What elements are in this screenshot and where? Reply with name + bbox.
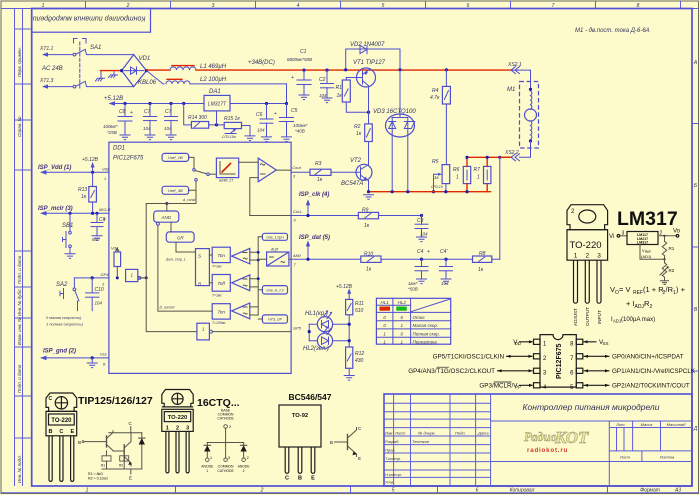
motor M1	[507, 82, 539, 158]
stamp title cell line	[491, 420, 692, 422]
svg-text:GP1/AN1/CIN-/Vref/ICSPCLK: GP1/AN1/CIN-/Vref/ICSPCLK	[612, 368, 696, 375]
svg-text:6: 6	[476, 488, 479, 494]
top ruler ticks	[86, 1, 681, 9]
switch SA2	[56, 278, 79, 311]
svg-text:Перв. примен.: Перв. примен.	[17, 47, 22, 77]
svg-text:1к: 1к	[337, 93, 343, 99]
svg-text:Лист: Лист	[619, 455, 631, 460]
inverter gate GP4	[126, 269, 147, 281]
wire pin6 feedback inside DD1	[250, 215, 291, 217]
reference box One_1.0	[258, 233, 287, 240]
ground ISP	[87, 356, 97, 367]
svg-text:B: B	[49, 429, 53, 435]
left margin cell separators	[15, 29, 32, 438]
svg-text:Перегрузка: Перегрузка	[413, 339, 438, 344]
resistor R11	[346, 299, 364, 347]
svg-text:SB1: SB1	[62, 223, 73, 229]
capacitor C3	[415, 214, 428, 242]
svg-text:C3: C3	[417, 218, 424, 224]
IC block DD1 PIC12F675	[109, 142, 291, 373]
wire GP to LEDs	[308, 323, 351, 343]
svg-text:ISP_clk (4): ISP_clk (4)	[299, 192, 329, 198]
svg-text:Копировал: Копировал	[510, 488, 535, 494]
svg-text:Toff: Toff	[218, 281, 226, 286]
svg-text:C4: C4	[417, 249, 424, 255]
svg-text:104: 104	[95, 301, 103, 306]
pin 3	[534, 368, 541, 373]
stamp right cell labels	[615, 422, 686, 460]
svg-text:Контроллер питания микродрели: Контроллер питания микродрели	[523, 402, 660, 412]
adj pin wire	[640, 245, 665, 260]
svg-text:AN0: AN0	[292, 253, 302, 258]
left margin vertical labels	[17, 47, 22, 483]
svg-text:GP4/AN3/T1G/OSC2/CLKOUT: GP4/AN3/T1G/OSC2/CLKOUT	[408, 368, 495, 375]
svg-text:LM317: LM317	[637, 241, 648, 245]
left margin column lines	[15, 9, 23, 487]
svg-text:B: B	[330, 440, 333, 445]
svg-text:B: B	[78, 440, 81, 445]
svg-text:2: 2	[650, 304, 653, 310]
svg-text:1к: 1к	[81, 194, 87, 200]
svg-text:HL2(зел.): HL2(зел.)	[303, 346, 329, 352]
svg-text:2: 2	[229, 425, 231, 429]
resistor R4	[430, 68, 450, 164]
LED HL1	[305, 310, 349, 332]
inductor L1	[170, 64, 227, 70]
svg-text:Лит.: Лит.	[615, 422, 625, 427]
pin Cout	[292, 165, 301, 179]
svg-text:C5: C5	[291, 108, 298, 114]
pin arrows right	[584, 342, 610, 386]
svg-text:R5: R5	[432, 159, 439, 165]
svg-text:COMMON: COMMON	[218, 465, 234, 469]
svg-text:Подп.: Подп.	[455, 431, 466, 436]
node adj	[215, 123, 218, 126]
node inverter branch	[145, 276, 148, 279]
svg-text:GP5: GP5	[293, 326, 302, 331]
svg-text:Т=100мс: Т=100мс	[212, 321, 226, 325]
svg-text:Полная скор.: Полная скор.	[413, 331, 440, 336]
logic gate AND	[154, 211, 179, 225]
svg-text:C: C	[59, 429, 63, 435]
svg-text:Листов: Листов	[659, 455, 675, 460]
svg-text:CATHODE: CATHODE	[217, 469, 234, 473]
capacitor C6	[256, 102, 273, 142]
svg-text:1 полная скорость): 1 полная скорость)	[46, 322, 84, 327]
svg-text:GP4: GP4	[101, 272, 110, 277]
svg-text:GP0/AN0/CIN+/ICSPDAT: GP0/AN0/CIN+/ICSPDAT	[612, 354, 684, 361]
resistor R5 rheostat	[431, 159, 450, 193]
label ISP_dat	[299, 235, 330, 261]
svg-text:Cout: Cout	[292, 165, 301, 170]
svg-text:R2: R2	[354, 124, 361, 130]
svg-text:104: 104	[143, 126, 151, 131]
transistor VT1 TIP127	[346, 60, 385, 87]
resistor R7	[474, 157, 491, 191]
svg-text:Vdd: Vdd	[102, 167, 110, 172]
inductor L2	[166, 77, 227, 84]
svg-text:TO-220: TO-220	[51, 418, 72, 424]
resistor R1 (tip)	[102, 456, 111, 461]
svg-text:16CTQ...: 16CTQ...	[197, 397, 240, 409]
switch SB1	[62, 212, 75, 259]
svg-text:DD: DD	[515, 341, 522, 346]
svg-text:ISP_dat (5): ISP_dat (5)	[299, 235, 330, 241]
svg-text:PIC12F675: PIC12F675	[556, 343, 563, 379]
internal pullup Vdd resistor	[111, 246, 121, 280]
connector XT1.1	[39, 46, 73, 57]
svg-text:104: 104	[164, 126, 172, 131]
leg labels	[573, 307, 602, 326]
svg-text:104: 104	[420, 232, 428, 237]
capacitor C10	[86, 276, 104, 310]
TO-92 legs	[285, 447, 315, 473]
wire red bridge to L1	[147, 69, 171, 71]
svg-text:Подп. и дата: Подп. и дата	[17, 255, 22, 284]
stamp right cells	[491, 421, 692, 486]
node R6 top	[465, 156, 468, 159]
svg-text:ISP_Vdd (1): ISP_Vdd (1)	[38, 165, 71, 171]
svg-text:R11: R11	[355, 301, 364, 307]
svg-text:Cin1-: Cin1-	[293, 209, 303, 214]
svg-text:ADJ: ADJ	[613, 319, 621, 324]
svg-text:LM317: LM317	[617, 208, 678, 230]
svg-text:1: 1	[574, 253, 578, 260]
svg-text:C7: C7	[165, 109, 172, 115]
svg-text:BC546/547: BC546/547	[288, 392, 331, 402]
svg-text:S: S	[198, 254, 201, 259]
svg-text:R13: R13	[78, 187, 87, 193]
svg-text:C1: C1	[300, 49, 307, 55]
power +5.12V arrow (led)	[336, 284, 353, 299]
resistor R12	[344, 347, 364, 380]
indicator truth table	[376, 298, 450, 344]
svg-text:СП3-19а: СП3-19а	[222, 135, 236, 139]
comparator cmp2	[232, 275, 259, 291]
TO-220 tab 16CTQ	[162, 390, 193, 407]
bottom ruler line	[1, 492, 699, 494]
diode VD3 16CTQ100	[373, 70, 416, 192]
svg-text:Радио: Радио	[524, 430, 557, 444]
svg-text:0 малая скорость): 0 малая скорость)	[46, 315, 82, 320]
svg-text:+5.12В: +5.12В	[336, 284, 353, 290]
svg-text:XT1.3: XT1.3	[39, 78, 54, 84]
svg-text:Д: Д	[693, 426, 698, 432]
svg-text:Инв. № дубл.: Инв. № дубл.	[17, 288, 22, 316]
svg-text:Т.контр.: Т.контр.	[385, 456, 401, 461]
ground VT2 emitter	[364, 195, 374, 200]
svg-text:HL1: HL1	[380, 300, 389, 305]
power +5.12V arrow	[104, 96, 123, 106]
svg-text:СП3-19: СП3-19	[431, 185, 443, 189]
comparator cmp3	[232, 303, 259, 319]
svg-text:*40В: *40В	[295, 129, 305, 134]
stamp left grid verticals	[394, 394, 491, 486]
pin Cin1-	[293, 209, 303, 223]
resistor R2 (lm317 app, variable)	[664, 259, 666, 281]
resistor R2 (tip)	[120, 456, 129, 461]
svg-text:1: 1	[206, 469, 208, 473]
label ISP_Vdd	[38, 165, 110, 181]
TO-220 body LM317	[567, 230, 608, 261]
svg-text:АЦП: АЦП	[270, 248, 279, 252]
svg-text:C8: C8	[119, 109, 126, 115]
svg-text:BC547A: BC547A	[341, 181, 363, 187]
svg-text:C: C	[49, 396, 53, 402]
inverter gate GP5 out	[146, 278, 291, 340]
svg-text:HL2: HL2	[398, 300, 407, 305]
capacitor C7a	[143, 102, 157, 140]
svg-text:C7: C7	[144, 109, 151, 115]
svg-text:DA1: DA1	[209, 89, 221, 95]
svg-text:М1: М1	[507, 87, 515, 93]
svg-text:А: А	[693, 60, 698, 66]
svg-text:Vss: Vss	[100, 352, 107, 357]
ref selector switch	[182, 157, 216, 202]
svg-text:ADJ: ADJ	[635, 304, 645, 310]
ground R15	[245, 136, 255, 141]
svg-text:E: E	[311, 476, 315, 482]
svg-text:Пров.: Пров.	[385, 448, 396, 453]
TO-220 tab TIP	[46, 393, 77, 411]
op-amp/IC pinout DD1 PIC12F675	[408, 335, 696, 391]
label ISP_gnd	[40, 349, 109, 367]
comparator cmp1	[232, 248, 259, 264]
LM317 app circuit	[609, 229, 681, 285]
svg-text:Справ. №: Справ. №	[17, 116, 22, 137]
wire red ground rail	[369, 191, 491, 193]
svg-text:PIC12F675: PIC12F675	[113, 156, 144, 162]
svg-text:DD1: DD1	[113, 146, 125, 152]
capacitor C2	[319, 69, 334, 103]
right margin zone ticks	[692, 124, 699, 372]
svg-text:OR: OR	[177, 236, 185, 241]
svg-text:А3: А3	[674, 488, 681, 494]
wire bridge to L2	[147, 71, 165, 84]
svg-text:Vo: Vo	[673, 229, 681, 235]
svg-text:KBL06: KBL06	[138, 80, 157, 86]
svg-text:ISP_gnd (2): ISP_gnd (2)	[43, 349, 76, 355]
svg-text:R1: R1	[101, 464, 105, 468]
svg-text:1к: 1к	[356, 131, 362, 137]
resistor R13	[78, 171, 96, 214]
svg-text:3: 3	[597, 253, 601, 260]
svg-text:C10: C10	[95, 287, 104, 293]
wire SA1 to bridge bottom	[85, 82, 133, 87]
svg-text:Изм: Изм	[385, 431, 393, 436]
stamp left grid horizontals	[384, 403, 491, 477]
capacitor C4a	[440, 249, 453, 286]
svg-text:Н.контр.: Н.контр.	[385, 472, 402, 477]
svg-text:2: 2	[585, 253, 589, 260]
svg-text:VT2: VT2	[350, 158, 362, 164]
label ISP_mclr	[38, 206, 110, 222]
svg-text:М1 - дв.пост. тока Д-6-6А: М1 - дв.пост. тока Д-6-6А	[575, 28, 650, 34]
pin labels right	[599, 339, 696, 390]
capacitor C4	[408, 249, 430, 292]
svg-text:1: 1	[210, 456, 212, 460]
label ISP_clk	[299, 192, 329, 217]
svg-text:+: +	[274, 111, 277, 117]
wire XS2.2 sense to R8	[499, 157, 501, 259]
power +5.12V arrow (isp)	[82, 157, 99, 172]
svg-text:E: E	[358, 456, 361, 461]
svg-text:TO-92: TO-92	[292, 413, 308, 419]
svg-text:430: 430	[355, 358, 364, 364]
svg-text:Малая скор.: Малая скор.	[413, 323, 439, 328]
wire SA1 to bridge top	[85, 50, 133, 55]
svg-text:1к: 1к	[364, 223, 370, 229]
connector XS2.1	[507, 62, 531, 82]
wire GP4 net	[74, 277, 109, 279]
wire L2 to DA1 input	[190, 84, 287, 104]
svg-text:OUTPUT: OUTPUT	[585, 307, 590, 326]
pin 7	[576, 354, 583, 359]
resistor R15 trimmer	[222, 116, 242, 139]
svg-text:Теченков: Теченков	[412, 439, 429, 444]
svg-text:*50В: *50В	[408, 287, 418, 292]
capacitor C8	[103, 102, 133, 140]
wire red main rail	[196, 69, 512, 71]
svg-text:+ I: + I	[626, 299, 635, 308]
node ref to AND	[165, 202, 168, 205]
svg-text:VD2 1N4007: VD2 1N4007	[350, 42, 385, 48]
svg-text:1к: 1к	[317, 177, 323, 183]
right margin zone letters	[693, 60, 698, 432]
capacitor C5	[274, 102, 308, 142]
svg-text:2: 2	[247, 456, 249, 460]
resistor R6	[453, 157, 471, 191]
svg-text:INPUT: INPUT	[597, 310, 602, 324]
pin arrows left	[497, 342, 533, 386]
svg-text:CATHODE: CATHODE	[217, 417, 234, 421]
svg-text:XT1.1: XT1.1	[39, 46, 54, 52]
top zone numbers	[42, 3, 640, 9]
svg-text:100мк*: 100мк*	[293, 123, 308, 128]
svg-text:R1: R1	[336, 85, 343, 91]
svg-text:1: 1	[456, 175, 459, 181]
svg-text:Оnе_Н_1.0: Оnе_Н_1.0	[266, 289, 283, 293]
resistor R14	[182, 102, 209, 128]
capacitor C9	[91, 212, 106, 242]
svg-text:C6: C6	[256, 112, 263, 118]
svg-text:R1: R1	[669, 246, 675, 251]
svg-text:TO-220: TO-220	[570, 240, 602, 251]
svg-text:2: 2	[660, 231, 663, 237]
node XS2.2 branch	[498, 156, 501, 159]
svg-text:LM317T: LM317T	[208, 102, 227, 108]
resistor R1 (lm317 app)	[663, 235, 665, 237]
svg-text:GP3/MCLR/V: GP3/MCLR/V	[479, 383, 518, 390]
connector XT1.3	[39, 78, 73, 89]
LM317 legs	[574, 260, 602, 303]
svg-text:Ton: Ton	[218, 310, 226, 315]
svg-text:E: E	[129, 476, 132, 481]
svg-text:1: 1	[477, 175, 480, 181]
svg-text:*25В: *25В	[107, 130, 117, 135]
svg-text:E: E	[70, 429, 74, 435]
svg-text:1: 1	[86, 488, 89, 494]
comparator (pwm)	[239, 158, 291, 215]
TO-92 body	[279, 405, 321, 447]
16CTQ legs	[166, 431, 189, 473]
diode bridge VD1 KBL06	[122, 55, 157, 87]
svg-text:R12: R12	[355, 351, 364, 357]
stamp header row texts	[385, 431, 489, 485]
svg-text:6800мк*50В: 6800мк*50В	[287, 57, 312, 62]
reference box Uref_4V	[162, 186, 189, 194]
pin 8	[576, 339, 583, 344]
bottom ruler ticks	[176, 486, 608, 493]
pin 6	[576, 368, 583, 373]
svg-text:R14 300: R14 300	[188, 115, 207, 121]
svg-text:C2: C2	[319, 77, 326, 83]
logic gate OR	[165, 222, 196, 261]
timer block Ton2	[212, 304, 230, 325]
svg-text:2: 2	[243, 469, 245, 473]
resistor R2	[354, 124, 372, 142]
svg-text:B: B	[298, 476, 302, 482]
svg-text:+: +	[130, 110, 133, 116]
svg-text:Инв. № подл.: Инв. № подл.	[17, 455, 22, 483]
svg-text:SA2: SA2	[56, 282, 68, 288]
svg-text:Uref_4В: Uref_4В	[168, 188, 183, 193]
pin 5	[576, 383, 583, 388]
svg-text:1к: 1к	[478, 267, 484, 273]
svg-text:D_current: D_current	[160, 306, 176, 310]
resistor R9	[291, 208, 421, 230]
connector XS2.2	[500, 150, 520, 161]
svg-text:AND: AND	[161, 215, 172, 220]
svg-text:REF: REF	[633, 290, 643, 296]
svg-text:Контроллер питания микродрели: Контроллер питания микродрели	[33, 15, 146, 23]
regulator DA1 LM317T	[204, 89, 230, 111]
svg-text:ШИМ_2Т: ШИМ_2Т	[219, 179, 234, 183]
formula	[610, 285, 686, 324]
svg-text:2: 2	[260, 488, 264, 494]
svg-text:+5.12В: +5.12В	[104, 96, 123, 102]
svg-text:Дата: Дата	[477, 431, 489, 436]
svg-text:5: 5	[392, 488, 395, 494]
svg-text:104: 104	[319, 93, 327, 98]
svg-text:Масштаб: Масштаб	[667, 422, 686, 427]
svg-text:104: 104	[257, 128, 265, 133]
transistor VT2 BC547A	[331, 158, 372, 192]
svg-text:4.7к: 4.7к	[430, 95, 440, 101]
svg-text:= V: = V	[619, 285, 630, 294]
capacitor C1	[287, 49, 312, 100]
svg-text:(1 + R: (1 + R	[643, 285, 664, 294]
resistor R10	[291, 252, 472, 273]
wire +5.12 rail from DA1 out	[110, 103, 204, 105]
svg-text:ISP_mclr (3): ISP_mclr (3)	[38, 206, 73, 212]
svg-text:ANODE: ANODE	[201, 465, 214, 469]
svg-text:R3: R3	[315, 161, 322, 167]
wire ref switch to AND	[138, 181, 196, 278]
TO-220 tab LM317	[567, 205, 608, 230]
svg-text:R4: R4	[432, 88, 439, 94]
svg-text:TO-220: TO-220	[168, 415, 188, 421]
reference box HYS_0P	[258, 315, 287, 323]
svg-text:3: 3	[186, 426, 189, 432]
svg-text:+34В(DC): +34В(DC)	[248, 60, 275, 66]
wire dc minus stubs with chassis grounds	[96, 71, 118, 81]
node VT1 collector	[367, 111, 370, 114]
resistor R1	[336, 78, 369, 113]
svg-text:PP: PP	[515, 385, 521, 390]
radiokot logo	[524, 428, 589, 454]
svg-text:R2: R2	[669, 268, 675, 273]
